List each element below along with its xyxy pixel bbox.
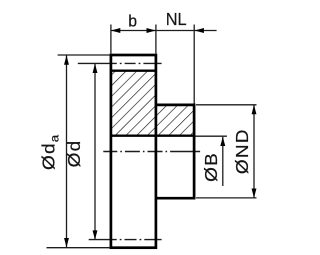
svg-text:Ød: Ød	[65, 140, 84, 168]
svg-text:ØND: ØND	[233, 128, 252, 174]
svg-text:b: b	[128, 12, 137, 31]
svg-text:ØB: ØB	[202, 152, 221, 182]
svg-text:NL: NL	[166, 8, 187, 29]
